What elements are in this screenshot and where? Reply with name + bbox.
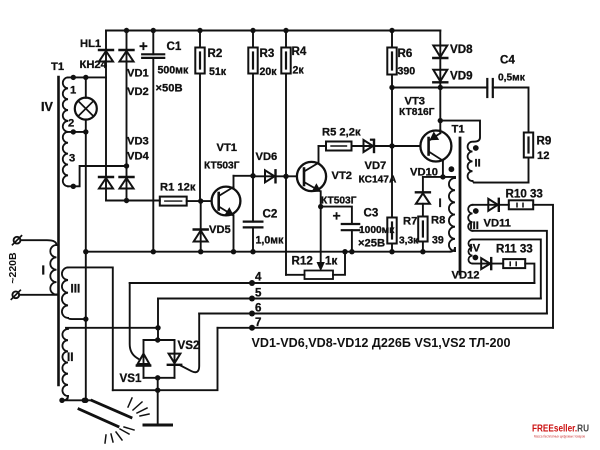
svg-text:R5 2,2к: R5 2,2к (322, 127, 361, 139)
svg-text:R9: R9 (537, 135, 552, 148)
svg-text:FREEseller.RU: FREEseller.RU (532, 423, 589, 435)
svg-text:III: III (470, 220, 479, 232)
svg-text:VD10: VD10 (410, 167, 438, 179)
svg-text:R12: R12 (292, 255, 313, 268)
svg-text:VD1: VD1 (127, 68, 149, 80)
svg-text:C1: C1 (167, 40, 182, 53)
svg-text:2: 2 (68, 118, 74, 130)
svg-text:1,0мк: 1,0мк (256, 235, 285, 247)
svg-text:12: 12 (537, 150, 549, 162)
svg-text:II: II (475, 158, 481, 170)
svg-text:Т1: Т1 (51, 61, 64, 73)
svg-text:HL1: HL1 (80, 38, 101, 50)
svg-text:20к: 20к (260, 66, 278, 78)
svg-text:III: III (71, 283, 81, 296)
svg-text:VT1: VT1 (217, 142, 238, 154)
svg-text:R2: R2 (208, 47, 223, 60)
svg-text:VD1-VD6,VD8-VD12 Д226Б VS1,VS: VD1-VD6,VD8-VD12 Д226Б VS1,VS2 ТЛ-200 (252, 335, 511, 350)
svg-text:1: 1 (70, 85, 76, 97)
svg-text:C2: C2 (263, 208, 278, 221)
svg-text:500мк: 500мк (158, 65, 190, 77)
svg-text:7: 7 (255, 316, 261, 329)
svg-text:VD2: VD2 (127, 86, 149, 98)
svg-text:КН24: КН24 (80, 59, 108, 71)
svg-text:IV: IV (470, 243, 481, 255)
svg-text:VD12: VD12 (452, 270, 480, 282)
svg-text:КТ816Г: КТ816Г (399, 107, 435, 118)
svg-text:КС147А: КС147А (359, 175, 397, 186)
svg-text:VD5: VD5 (209, 224, 231, 236)
svg-text:VD3: VD3 (127, 136, 149, 148)
svg-text:+: + (333, 208, 341, 224)
svg-text:R11 33: R11 33 (496, 243, 533, 256)
svg-text:R7: R7 (403, 216, 417, 228)
svg-text:1000мк: 1000мк (359, 225, 395, 236)
svg-text:39: 39 (432, 235, 444, 247)
svg-text:VD6: VD6 (256, 151, 278, 163)
svg-text:C4: C4 (500, 54, 515, 67)
svg-text:VD8: VD8 (450, 43, 473, 56)
svg-text:II: II (67, 351, 73, 364)
svg-text:R3: R3 (260, 47, 275, 60)
svg-text:КТ503Г: КТ503Г (321, 196, 357, 207)
svg-text:+: + (139, 38, 148, 55)
svg-text:КТ503Г: КТ503Г (204, 161, 240, 172)
svg-text:VD9: VD9 (450, 70, 473, 83)
svg-text:~220В: ~220В (7, 252, 19, 284)
svg-text:Т1: Т1 (452, 124, 465, 136)
svg-text:1к: 1к (325, 255, 337, 268)
svg-text:2к: 2к (293, 65, 305, 77)
svg-text:R4: R4 (292, 45, 307, 58)
svg-text:×50В: ×50В (156, 83, 183, 95)
svg-text:×25В: ×25В (358, 238, 385, 250)
svg-text:I: I (42, 264, 46, 278)
svg-text:51к: 51к (209, 66, 227, 78)
svg-text:R8: R8 (431, 215, 445, 227)
svg-text:R1 12к: R1 12к (160, 182, 196, 194)
svg-text:VD4: VD4 (127, 151, 150, 163)
svg-text:6: 6 (255, 302, 262, 315)
svg-text:0,5мк: 0,5мк (498, 73, 526, 84)
svg-text:VD7: VD7 (365, 160, 387, 172)
svg-text:3,3к: 3,3к (399, 236, 419, 247)
svg-text:4: 4 (255, 271, 262, 284)
svg-text:390: 390 (398, 66, 416, 78)
svg-text:C3: C3 (364, 207, 379, 220)
svg-text:R6: R6 (398, 47, 413, 60)
svg-text:5: 5 (255, 287, 262, 300)
svg-text:VS2: VS2 (178, 339, 200, 352)
svg-text:VT2: VT2 (332, 170, 353, 182)
svg-text:VS1: VS1 (120, 372, 142, 385)
svg-text:VD11: VD11 (484, 218, 511, 230)
svg-text:R10 33: R10 33 (506, 188, 544, 201)
svg-text:VT3: VT3 (405, 96, 426, 108)
svg-text:Масса бесплатных цифровых това: Масса бесплатных цифровых товаров (534, 435, 585, 439)
svg-text:IV: IV (41, 100, 53, 114)
svg-text:I: I (439, 197, 442, 210)
svg-text:3: 3 (69, 153, 75, 165)
